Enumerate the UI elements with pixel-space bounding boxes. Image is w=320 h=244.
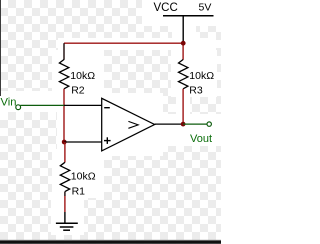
screenshot window edge bottom — [0, 240, 221, 244]
svg-text:R2: R2 — [71, 85, 85, 97]
wire to op-amp inverting input — [64, 104, 102, 106]
resistor R1 — [60, 162, 69, 191]
wire VCC stub — [182, 17, 184, 43]
resistor R3 — [179, 60, 188, 89]
wire main supply rail — [64, 42, 183, 44]
background white patches of original bitmap — [0, 0, 221, 235]
node output junction — [181, 122, 186, 127]
resistor R2 — [59, 60, 68, 89]
svg-text:VCC: VCC — [154, 2, 178, 14]
Vin terminal circle — [16, 105, 21, 110]
op-amp non-inverting input marker — [104, 137, 111, 144]
wire to ground — [64, 196, 66, 212]
node supply/R3 junction — [181, 41, 186, 46]
op-amp U1 — [102, 98, 155, 151]
svg-text:Vin: Vin — [1, 96, 17, 108]
ground symbol — [56, 223, 78, 230]
wire Vin to divider — [20, 104, 64, 106]
wire op-amp output — [155, 123, 183, 125]
wire R2 top lead — [63, 43, 65, 60]
Vout terminal circle — [207, 122, 211, 126]
screenshot window edge left — [0, 0, 1, 96]
svg-text:10kΩ: 10kΩ — [70, 70, 95, 82]
svg-text:10kΩ: 10kΩ — [189, 70, 214, 82]
VCC power symbol bar — [163, 15, 214, 17]
wire ground lead — [64, 212, 66, 223]
svg-text:R1: R1 — [72, 185, 86, 197]
node divider / + input junction — [62, 140, 67, 145]
wire R1 bottom lead — [64, 192, 66, 196]
wire R2 bottom lead to + node — [63, 89, 65, 142]
svg-text:Vout: Vout — [190, 133, 212, 145]
wire output to Vout terminal — [183, 123, 207, 125]
wire R3 top lead — [182, 43, 184, 60]
wire R3 bottom lead — [182, 89, 184, 124]
wire R1 top lead — [64, 142, 66, 162]
svg-text:R3: R3 — [189, 85, 203, 97]
wire to op-amp non-inverting input — [64, 141, 102, 143]
op-amp comparator symbol — [128, 121, 138, 128]
svg-text:5V: 5V — [199, 2, 212, 14]
svg-text:10kΩ: 10kΩ — [71, 171, 96, 183]
op-amp inverting input marker — [104, 107, 110, 109]
